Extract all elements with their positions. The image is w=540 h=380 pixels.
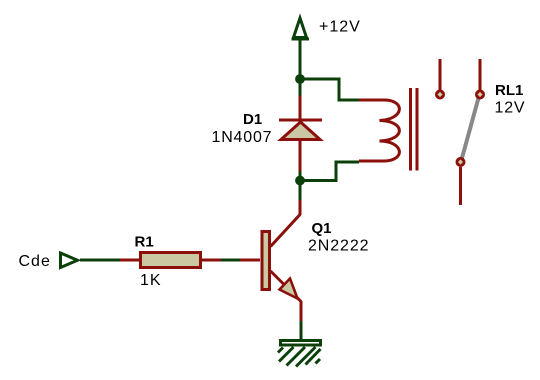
svg-text:R1: R1 [135, 234, 154, 251]
svg-text:2N2222: 2N2222 [308, 238, 369, 255]
svg-text:Cde: Cde [19, 253, 51, 270]
svg-text:RL1: RL1 [495, 82, 523, 99]
svg-text:12V: 12V [495, 100, 526, 117]
svg-text:+12V: +12V [319, 19, 361, 36]
svg-text:Q1: Q1 [312, 220, 332, 237]
svg-text:1K: 1K [140, 272, 162, 289]
svg-text:D1: D1 [243, 111, 262, 128]
svg-text:1N4007: 1N4007 [212, 129, 273, 146]
